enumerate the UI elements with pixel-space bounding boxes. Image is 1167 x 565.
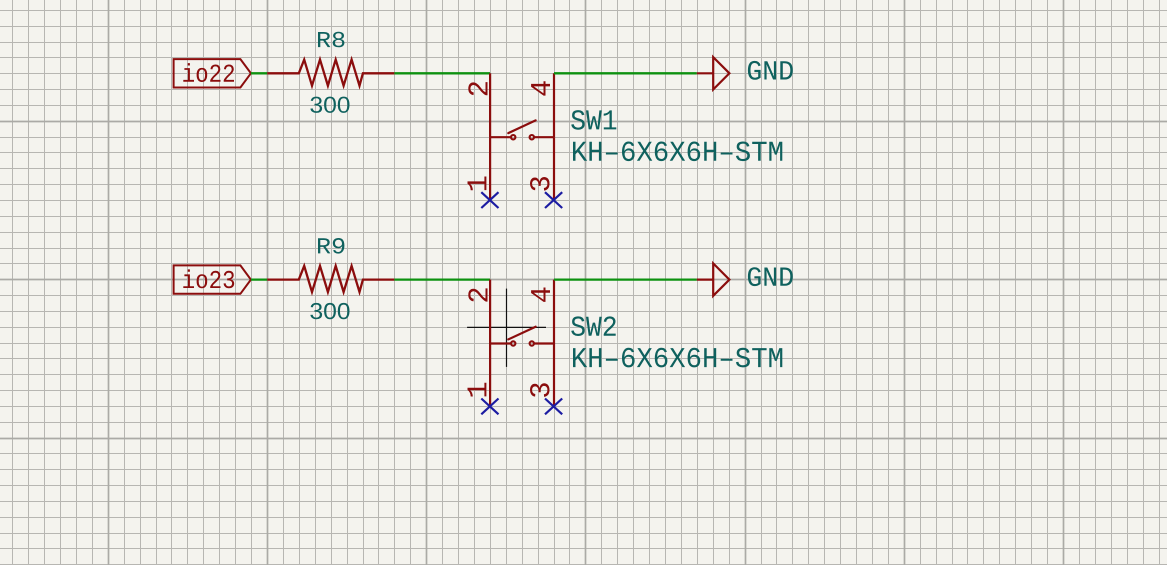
resistor R8 (267, 60, 394, 86)
resistor R8 value label 300 (310, 97, 349, 113)
switch SW1 pin 2 (489, 73, 491, 137)
global label io22 (174, 59, 251, 87)
switch SW1 pin number 1 (468, 177, 487, 191)
resistor R8 reference label (318, 32, 344, 48)
switch SW1 right contact (530, 135, 554, 139)
wire (251, 278, 267, 280)
switch SW2 lever (508, 327, 535, 340)
switch SW1 pin 4 (553, 73, 555, 137)
no-connect flag on SW1 pin 3 (545, 192, 562, 208)
switch SW2 pin 3 (553, 344, 555, 407)
switch SW1 left contact (490, 135, 515, 139)
switch SW2 pin number 1 (468, 383, 487, 397)
power symbol GND (697, 57, 730, 89)
switch SW1 pin number 2 (468, 82, 487, 95)
wire (394, 278, 490, 280)
resistor R9 reference label (318, 238, 344, 254)
power symbol GND label (748, 61, 793, 80)
switch SW2 right contact (530, 341, 554, 345)
switch SW1 lever (508, 120, 535, 133)
resistor R9 (267, 266, 394, 292)
global label io23 (174, 265, 251, 293)
switch SW2 pin number 4 (531, 288, 550, 302)
switch SW1 pin number 3 (530, 177, 550, 191)
switch SW2 pin 4 (553, 280, 555, 344)
switch SW2 reference label (571, 316, 616, 336)
cursor crosshair (467, 289, 546, 367)
switch SW2 pin number 3 (530, 383, 550, 397)
switch SW1 reference label (571, 110, 616, 130)
wire (394, 72, 490, 74)
power symbol GND (697, 263, 730, 295)
wire (251, 72, 267, 74)
wire (554, 278, 697, 280)
switch SW2 value label KH-6X6X6H-STM (573, 348, 782, 368)
no-connect flag on SW2 pin 3 (545, 399, 562, 415)
resistor R9 value label 300 (310, 303, 349, 319)
switch SW2 left contact (490, 341, 515, 345)
wire (554, 72, 697, 74)
no-connect flag on SW2 pin 1 (481, 399, 498, 415)
switch SW2 pin 1 (489, 344, 491, 407)
switch SW1 pin 1 (489, 137, 491, 200)
switch SW2 pin number 2 (468, 288, 487, 301)
switch SW1 value label KH-6X6X6H-STM (573, 142, 782, 162)
switch SW2 pin 2 (489, 280, 491, 344)
power symbol GND label (748, 267, 793, 286)
switch SW1 pin 3 (553, 137, 555, 200)
switch SW1 pin number 4 (531, 81, 550, 95)
no-connect flag on SW1 pin 1 (481, 192, 498, 208)
